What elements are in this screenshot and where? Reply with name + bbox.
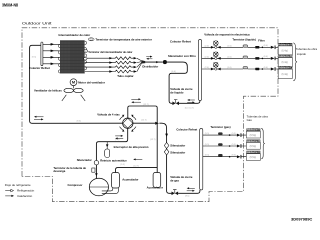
svg-text:Filtro: Filtro bbox=[258, 39, 265, 43]
capillary tube 1 (Tubo capilar) bbox=[85, 57, 134, 60]
flare connection gas C bbox=[237, 155, 241, 158]
outdoor unit dash-dot boundary bbox=[22, 28, 278, 202]
liquid pipe thermistor A (Termistor liquido) bbox=[243, 45, 247, 47]
svg-text:(6.4): (6.4) bbox=[264, 45, 269, 47]
svg-text:(9,5φ): (9,5φ) bbox=[250, 134, 257, 137]
wire: 4-way valve right port pipe bbox=[133, 122, 155, 124]
svg-text:Outdoor Unit: Outdoor Unit bbox=[22, 20, 53, 25]
svg-text:Válvula de 4 vías: Válvula de 4 vías bbox=[97, 112, 120, 116]
svg-text:Habitación A: Habitación A bbox=[279, 43, 293, 46]
outdoor air thermistor symbol (C3) bbox=[88, 38, 94, 41]
filter C (Filtro) bbox=[255, 68, 259, 71]
brace gas field piping bbox=[261, 128, 265, 159]
fan struts bbox=[73, 86, 75, 89]
flare connection gas B bbox=[237, 145, 241, 148]
flow arrows on HX riser line bbox=[36, 116, 43, 118]
svg-text:Tubo capilar: Tubo capilar bbox=[117, 74, 134, 78]
wire: liquid branch B bbox=[202, 57, 279, 59]
svg-text:(9.5): (9.5) bbox=[205, 155, 210, 157]
wire: heat-exchanger riser and 4-way valve left pipe bbox=[30, 45, 123, 123]
room box liquid Habitacion C bbox=[278, 66, 292, 78]
svg-text:Silenciador: Silenciador bbox=[170, 143, 186, 147]
svg-text:(9.5): (9.5) bbox=[185, 196, 190, 198]
svg-text:descarga: descarga bbox=[53, 169, 65, 173]
svg-text:(1.6): (1.6) bbox=[227, 67, 232, 69]
svg-text:de gas: de gas bbox=[170, 178, 179, 182]
svg-text:Intercambiador de calor: Intercambiador de calor bbox=[59, 33, 92, 37]
wire: liquid stop valve to liquid collector bbox=[179, 100, 200, 103]
four-way valve (Valvula de 4 vias) bbox=[123, 118, 133, 128]
legend cooling arrow bbox=[5, 190, 10, 192]
svg-text:Termistor (líquido): Termistor (líquido) bbox=[232, 38, 256, 42]
wire: gas branch C bbox=[203, 156, 247, 158]
brace liquid field piping bbox=[293, 43, 297, 81]
svg-text:(12.7): (12.7) bbox=[150, 139, 156, 141]
svg-text:Silenciador: Silenciador bbox=[77, 158, 93, 162]
svg-text:Termistor de la tubería de: Termistor de la tubería de bbox=[53, 166, 86, 170]
svg-text:Habitación A: Habitación A bbox=[247, 129, 260, 132]
junction dot liquid B bbox=[262, 58, 264, 60]
wire: refnet branch 1 with arrow bbox=[43, 43, 60, 45]
wire: refnet branch 4 with arrow bbox=[43, 63, 60, 65]
svg-text:(12.7): (12.7) bbox=[133, 165, 139, 167]
wire: refnet branch 3 with arrow bbox=[43, 56, 60, 58]
coil thermistor attach oval bbox=[84, 57, 87, 60]
svg-text:Válvula de expansión electróni: Válvula de expansión electrónica bbox=[204, 32, 250, 36]
fan motor (Motor del ventilador) bbox=[70, 79, 77, 86]
svg-text:(9.5): (9.5) bbox=[232, 144, 237, 146]
fan airflow strokes bbox=[62, 95, 85, 101]
svg-text:Acumulador: Acumulador bbox=[122, 178, 139, 182]
heat exchanger thermistor symbol (C) bbox=[84, 50, 88, 53]
svg-text:Distribuidor: Distribuidor bbox=[142, 65, 159, 69]
capillary tube 4 (Tubo capilar) bbox=[85, 70, 134, 73]
svg-text:Habitación C: Habitación C bbox=[279, 67, 293, 70]
filter B (Filtro) bbox=[255, 57, 259, 60]
svg-text:Termistor del intercambiador d: Termistor del intercambiador de calor bbox=[88, 50, 132, 54]
muffler diamond 1 (Silenciador) bbox=[164, 142, 169, 148]
svg-text:(9.5): (9.5) bbox=[205, 144, 210, 146]
svg-text:Habitación B: Habitación B bbox=[279, 55, 293, 58]
svg-text:M: M bbox=[72, 81, 75, 85]
junction dot liquid A bbox=[262, 47, 264, 49]
svg-text:Gas: Gas bbox=[247, 118, 253, 122]
wire: compressor discharge to 4-way valve bottom port bbox=[96, 128, 127, 178]
svg-text:Motor del ventilador: Motor del ventilador bbox=[78, 80, 106, 84]
wire: gas branch A bbox=[203, 134, 247, 136]
wire: suction header to accumulator 1 bbox=[116, 168, 158, 173]
svg-text:de líquido: de líquido bbox=[170, 91, 183, 95]
svg-text:Compresor: Compresor bbox=[68, 183, 84, 187]
discharge pipe thermistor (Termistor de la tuberia de descarga) bbox=[92, 168, 95, 172]
flow arrows on discharge pipe bbox=[115, 135, 121, 137]
svg-text:Líquido: Líquido bbox=[297, 52, 307, 56]
electronic expansion valve B (Valvula de expansion electronica) bbox=[211, 52, 221, 60]
left refnet collector (Colector Refnet) bbox=[41, 42, 43, 66]
svg-text:(6.4): (6.4) bbox=[171, 71, 176, 73]
wire: gas branch B bbox=[203, 145, 247, 147]
room box gas Habitacion A bbox=[246, 128, 260, 138]
room box liquid Habitacion A bbox=[278, 43, 292, 55]
wire: liquid line distributor to muffler with filter bbox=[145, 61, 163, 63]
svg-text:(1.6): (1.6) bbox=[115, 139, 120, 141]
four-way valve corner arrows bbox=[120, 116, 136, 130]
svg-text:Tuberías de obra: Tuberías de obra bbox=[296, 47, 318, 51]
capillary tube 3 (Tubo capilar) bbox=[85, 66, 134, 69]
junction dot gas B bbox=[229, 145, 231, 147]
svg-text:Silenciador: Silenciador bbox=[170, 151, 186, 155]
svg-text:Termistor (gas): Termistor (gas) bbox=[210, 125, 230, 129]
svg-text:(6.4): (6.4) bbox=[264, 56, 269, 58]
flare connection gas A bbox=[237, 134, 241, 137]
legend heating arrow bbox=[5, 195, 12, 197]
heat exchanger tube end bulges bbox=[58, 41, 86, 73]
svg-text:Calefacción: Calefacción bbox=[17, 194, 32, 198]
svg-text:Refrigeración: Refrigeración bbox=[17, 189, 35, 193]
svg-text:Silenciador con filtro: Silenciador con filtro bbox=[168, 54, 196, 58]
svg-text:(6.4 CuT): (6.4 CuT) bbox=[185, 107, 194, 109]
gas pipe thermistor A (Termistor gas) bbox=[218, 132, 223, 135]
wire: liquid branch C bbox=[202, 68, 279, 70]
svg-text:(9,5φ): (9,5φ) bbox=[250, 145, 257, 148]
muffler diamond 2 (Silenciador) bbox=[164, 149, 169, 155]
svg-text:3D097989C: 3D097989C bbox=[291, 217, 313, 221]
svg-text:Flujo de refrigerante: Flujo de refrigerante bbox=[5, 183, 31, 187]
flow arrow on suction header bbox=[135, 158, 142, 160]
svg-text:(9.5): (9.5) bbox=[232, 133, 237, 135]
svg-text:(9.5): (9.5) bbox=[205, 133, 210, 135]
high pressure switch stem bbox=[106, 142, 108, 149]
svg-text:Colector Refnet: Colector Refnet bbox=[29, 66, 50, 70]
flare connection liquid C bbox=[271, 68, 275, 71]
filter A (Filtro) bbox=[255, 46, 259, 49]
svg-text:(9.5): (9.5) bbox=[32, 57, 37, 59]
svg-text:Ventilador de hélices: Ventilador de hélices bbox=[34, 88, 62, 92]
gas refnet collector (Colector Refnet) bbox=[200, 128, 203, 190]
svg-text:Habitación B: Habitación B bbox=[247, 140, 260, 143]
room box liquid Habitacion B bbox=[278, 55, 292, 67]
svg-text:(9.5): (9.5) bbox=[232, 155, 237, 157]
svg-text:(12.7): (12.7) bbox=[143, 104, 149, 106]
gas pipe thermistor B (Termistor gas) bbox=[218, 143, 223, 146]
svg-text:Colector Refnet: Colector Refnet bbox=[170, 39, 191, 43]
svg-text:Interruptor de alta presión: Interruptor de alta presión bbox=[114, 145, 149, 149]
svg-text:(6,4φ): (6,4φ) bbox=[282, 61, 289, 64]
gas stop valve (Valvula de cierre de gas) bbox=[172, 192, 175, 196]
svg-text:(2.0): (2.0) bbox=[205, 67, 210, 69]
svg-text:(6,4φ): (6,4φ) bbox=[282, 50, 289, 53]
wire: refnet branch 2 with arrow bbox=[43, 50, 60, 52]
svg-text:3MXM-N8: 3MXM-N8 bbox=[2, 2, 19, 7]
heat exchanger coil (Intercambiador de calor) bbox=[61, 40, 85, 73]
wire: gas pipe down through mufflers to gas stop valve bbox=[159, 123, 171, 193]
svg-text:(9,5φ): (9,5φ) bbox=[250, 156, 257, 159]
wire: gas stop valve to gas collector bbox=[178, 190, 200, 193]
svg-text:(12.7): (12.7) bbox=[141, 120, 147, 122]
svg-text:Habitación C: Habitación C bbox=[247, 151, 260, 154]
accumulator 1 (Acumulador) bbox=[112, 173, 120, 189]
distributor (Distribuidor) bbox=[142, 60, 146, 63]
svg-text:Colector Refnet: Colector Refnet bbox=[176, 127, 197, 131]
junction dot gas A bbox=[229, 134, 231, 136]
junction dot liquid C bbox=[262, 68, 264, 70]
liquid pipe thermistor C (Termistor liquido) bbox=[243, 67, 247, 69]
flare connection liquid B bbox=[271, 57, 275, 60]
flow arrow at crossing bbox=[155, 122, 159, 125]
svg-text:Acumulador: Acumulador bbox=[147, 186, 164, 190]
svg-text:(9.5): (9.5) bbox=[120, 164, 125, 166]
flow arrows above suction top pipe bbox=[131, 98, 138, 100]
gas pipe thermistor C (Termistor gas) bbox=[218, 154, 223, 157]
propeller fan blades (Ventilador de helices) bbox=[64, 88, 74, 92]
pipe size labels bbox=[32, 45, 268, 198]
flow arrow down to compressor bbox=[95, 173, 98, 176]
svg-text:(6.4): (6.4) bbox=[264, 67, 269, 69]
electronic expansion valve A (Valvula de expansion electronica) bbox=[211, 41, 221, 49]
liquid pipe thermistor B (Termistor liquido) bbox=[243, 56, 247, 58]
capillary tube 2 (Tubo capilar) bbox=[85, 61, 134, 64]
muffler with filter (Silenciador con filtro) bbox=[163, 60, 167, 64]
svg-text:Termistor de temperatura de ai: Termistor de temperatura de aire exterio… bbox=[95, 38, 151, 42]
liquid refnet collector (Colector Refnet) bbox=[199, 39, 202, 100]
svg-text:(1.6): (1.6) bbox=[227, 56, 232, 58]
flow arrows at liquid stop valve bbox=[189, 99, 194, 101]
room box gas Habitacion C bbox=[246, 151, 260, 161]
room box gas Habitacion B bbox=[246, 140, 260, 150]
wire: accumulator 1 to compressor suction duct bbox=[102, 188, 119, 193]
junction dot gas C bbox=[229, 156, 231, 158]
svg-text:(9.5): (9.5) bbox=[77, 120, 82, 122]
svg-text:Reinicio automático: Reinicio automático bbox=[100, 158, 127, 162]
distributor converge lines bbox=[137, 58, 142, 71]
wire: 4-way valve top port to suction header bbox=[128, 106, 157, 173]
high pressure switch (Interruptor de alta presion) bbox=[105, 149, 110, 158]
svg-text:(2.0): (2.0) bbox=[205, 56, 210, 58]
svg-text:(6,4φ): (6,4φ) bbox=[282, 73, 289, 76]
flow arrows at distributor outlet bbox=[146, 56, 150, 58]
electronic expansion valve C (Valvula de expansion electronica) bbox=[211, 62, 221, 70]
muffler (Silenciador) on discharge bbox=[94, 161, 98, 165]
compressor (Compresor) bbox=[89, 178, 108, 196]
flow arrows at gas stop valve bbox=[189, 187, 195, 189]
svg-text:(2.0): (2.0) bbox=[205, 45, 210, 47]
liquid stop valve (Valvula de cierre de liquido) bbox=[172, 102, 175, 106]
flow arrow down on gas pipe bbox=[165, 134, 168, 137]
svg-text:(1.6): (1.6) bbox=[227, 45, 232, 47]
wire: liquid branch A bbox=[202, 46, 279, 48]
wire: liquid S-bend down to liquid stop valve bbox=[167, 62, 187, 103]
flare connection liquid A bbox=[271, 46, 275, 49]
accumulator 2 (Acumulador) bbox=[153, 173, 161, 188]
